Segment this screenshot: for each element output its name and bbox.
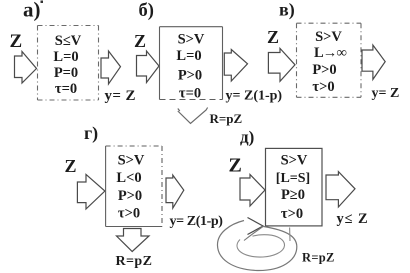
svg-text:y= Z(1-p): y= Z(1-p) <box>170 214 224 229</box>
svg-text:L<0: L<0 <box>116 170 141 186</box>
svg-text:R=pZ: R=pZ <box>116 254 153 269</box>
arrow output a <box>101 51 121 84</box>
svg-text:в): в) <box>279 0 295 21</box>
svg-text:R=pZ: R=pZ <box>210 111 243 126</box>
loop stub d <box>289 228 291 242</box>
svg-text:P>0: P>0 <box>118 188 142 204</box>
arrow output v <box>362 45 385 79</box>
svg-text:б): б) <box>139 1 154 21</box>
svg-text:[L=S]: [L=S] <box>276 171 310 186</box>
block v text <box>312 29 346 95</box>
svg-text:а): а) <box>23 0 41 22</box>
loop arrowhead d <box>248 218 264 235</box>
block g <box>106 146 162 227</box>
svg-text:y= Z: y= Z <box>105 88 136 104</box>
block d text <box>276 153 310 223</box>
arrow input b <box>137 51 160 83</box>
svg-text:R=pZ: R=pZ <box>302 251 335 265</box>
svg-text:L=0: L=0 <box>176 48 201 64</box>
svg-text:Z: Z <box>267 27 279 47</box>
svg-text:Z: Z <box>65 156 77 176</box>
svg-text:д): д) <box>240 128 254 147</box>
svg-text:τ>0: τ>0 <box>281 206 303 222</box>
block g text <box>116 153 145 222</box>
arrow output g <box>166 175 184 208</box>
arrow input a <box>15 52 37 84</box>
arrow down g <box>117 229 150 252</box>
block v <box>297 23 362 97</box>
svg-text:L=0: L=0 <box>53 49 78 65</box>
block d <box>266 148 323 226</box>
svg-text:Z: Z <box>134 31 146 51</box>
arrow down b (V) <box>178 108 208 124</box>
svg-text:y= Z(1-p): y= Z(1-p) <box>226 89 283 104</box>
arrow input v <box>268 48 295 81</box>
svg-text:P>0: P>0 <box>312 62 336 78</box>
svg-text:P≥0: P≥0 <box>281 187 305 203</box>
svg-text:S>V: S>V <box>281 153 308 169</box>
svg-text:τ>0: τ>0 <box>118 206 140 222</box>
block b text <box>176 32 205 102</box>
svg-text:τ=0: τ=0 <box>179 86 201 102</box>
loop tail line d <box>244 227 263 241</box>
svg-text:P>0: P>0 <box>178 68 202 84</box>
loop arrow d outer <box>217 221 296 271</box>
svg-text:τ>0: τ>0 <box>312 79 334 95</box>
svg-text:г): г) <box>84 123 98 144</box>
speck <box>41 1 44 4</box>
svg-text:S>V: S>V <box>118 153 145 169</box>
svg-text:S≤V: S≤V <box>55 33 82 49</box>
svg-text:P=0: P=0 <box>54 65 78 81</box>
svg-text:y≤ Z: y≤ Z <box>337 211 369 227</box>
svg-text:S>V: S>V <box>315 29 342 45</box>
svg-text:L→∞: L→∞ <box>314 45 347 61</box>
block a <box>38 26 99 101</box>
arrow input d <box>240 175 265 207</box>
arrow output d <box>326 172 355 207</box>
svg-text:Z: Z <box>10 31 23 52</box>
arrow output b <box>224 50 247 82</box>
block b <box>160 27 223 100</box>
loop arrow d inner <box>237 235 284 257</box>
svg-text:τ=0: τ=0 <box>55 81 77 97</box>
arrow input g <box>77 174 105 209</box>
svg-text:y= Z: y= Z <box>372 86 400 101</box>
svg-text:Z: Z <box>229 155 242 177</box>
svg-text:S>V: S>V <box>178 32 205 48</box>
block a text <box>53 33 81 97</box>
